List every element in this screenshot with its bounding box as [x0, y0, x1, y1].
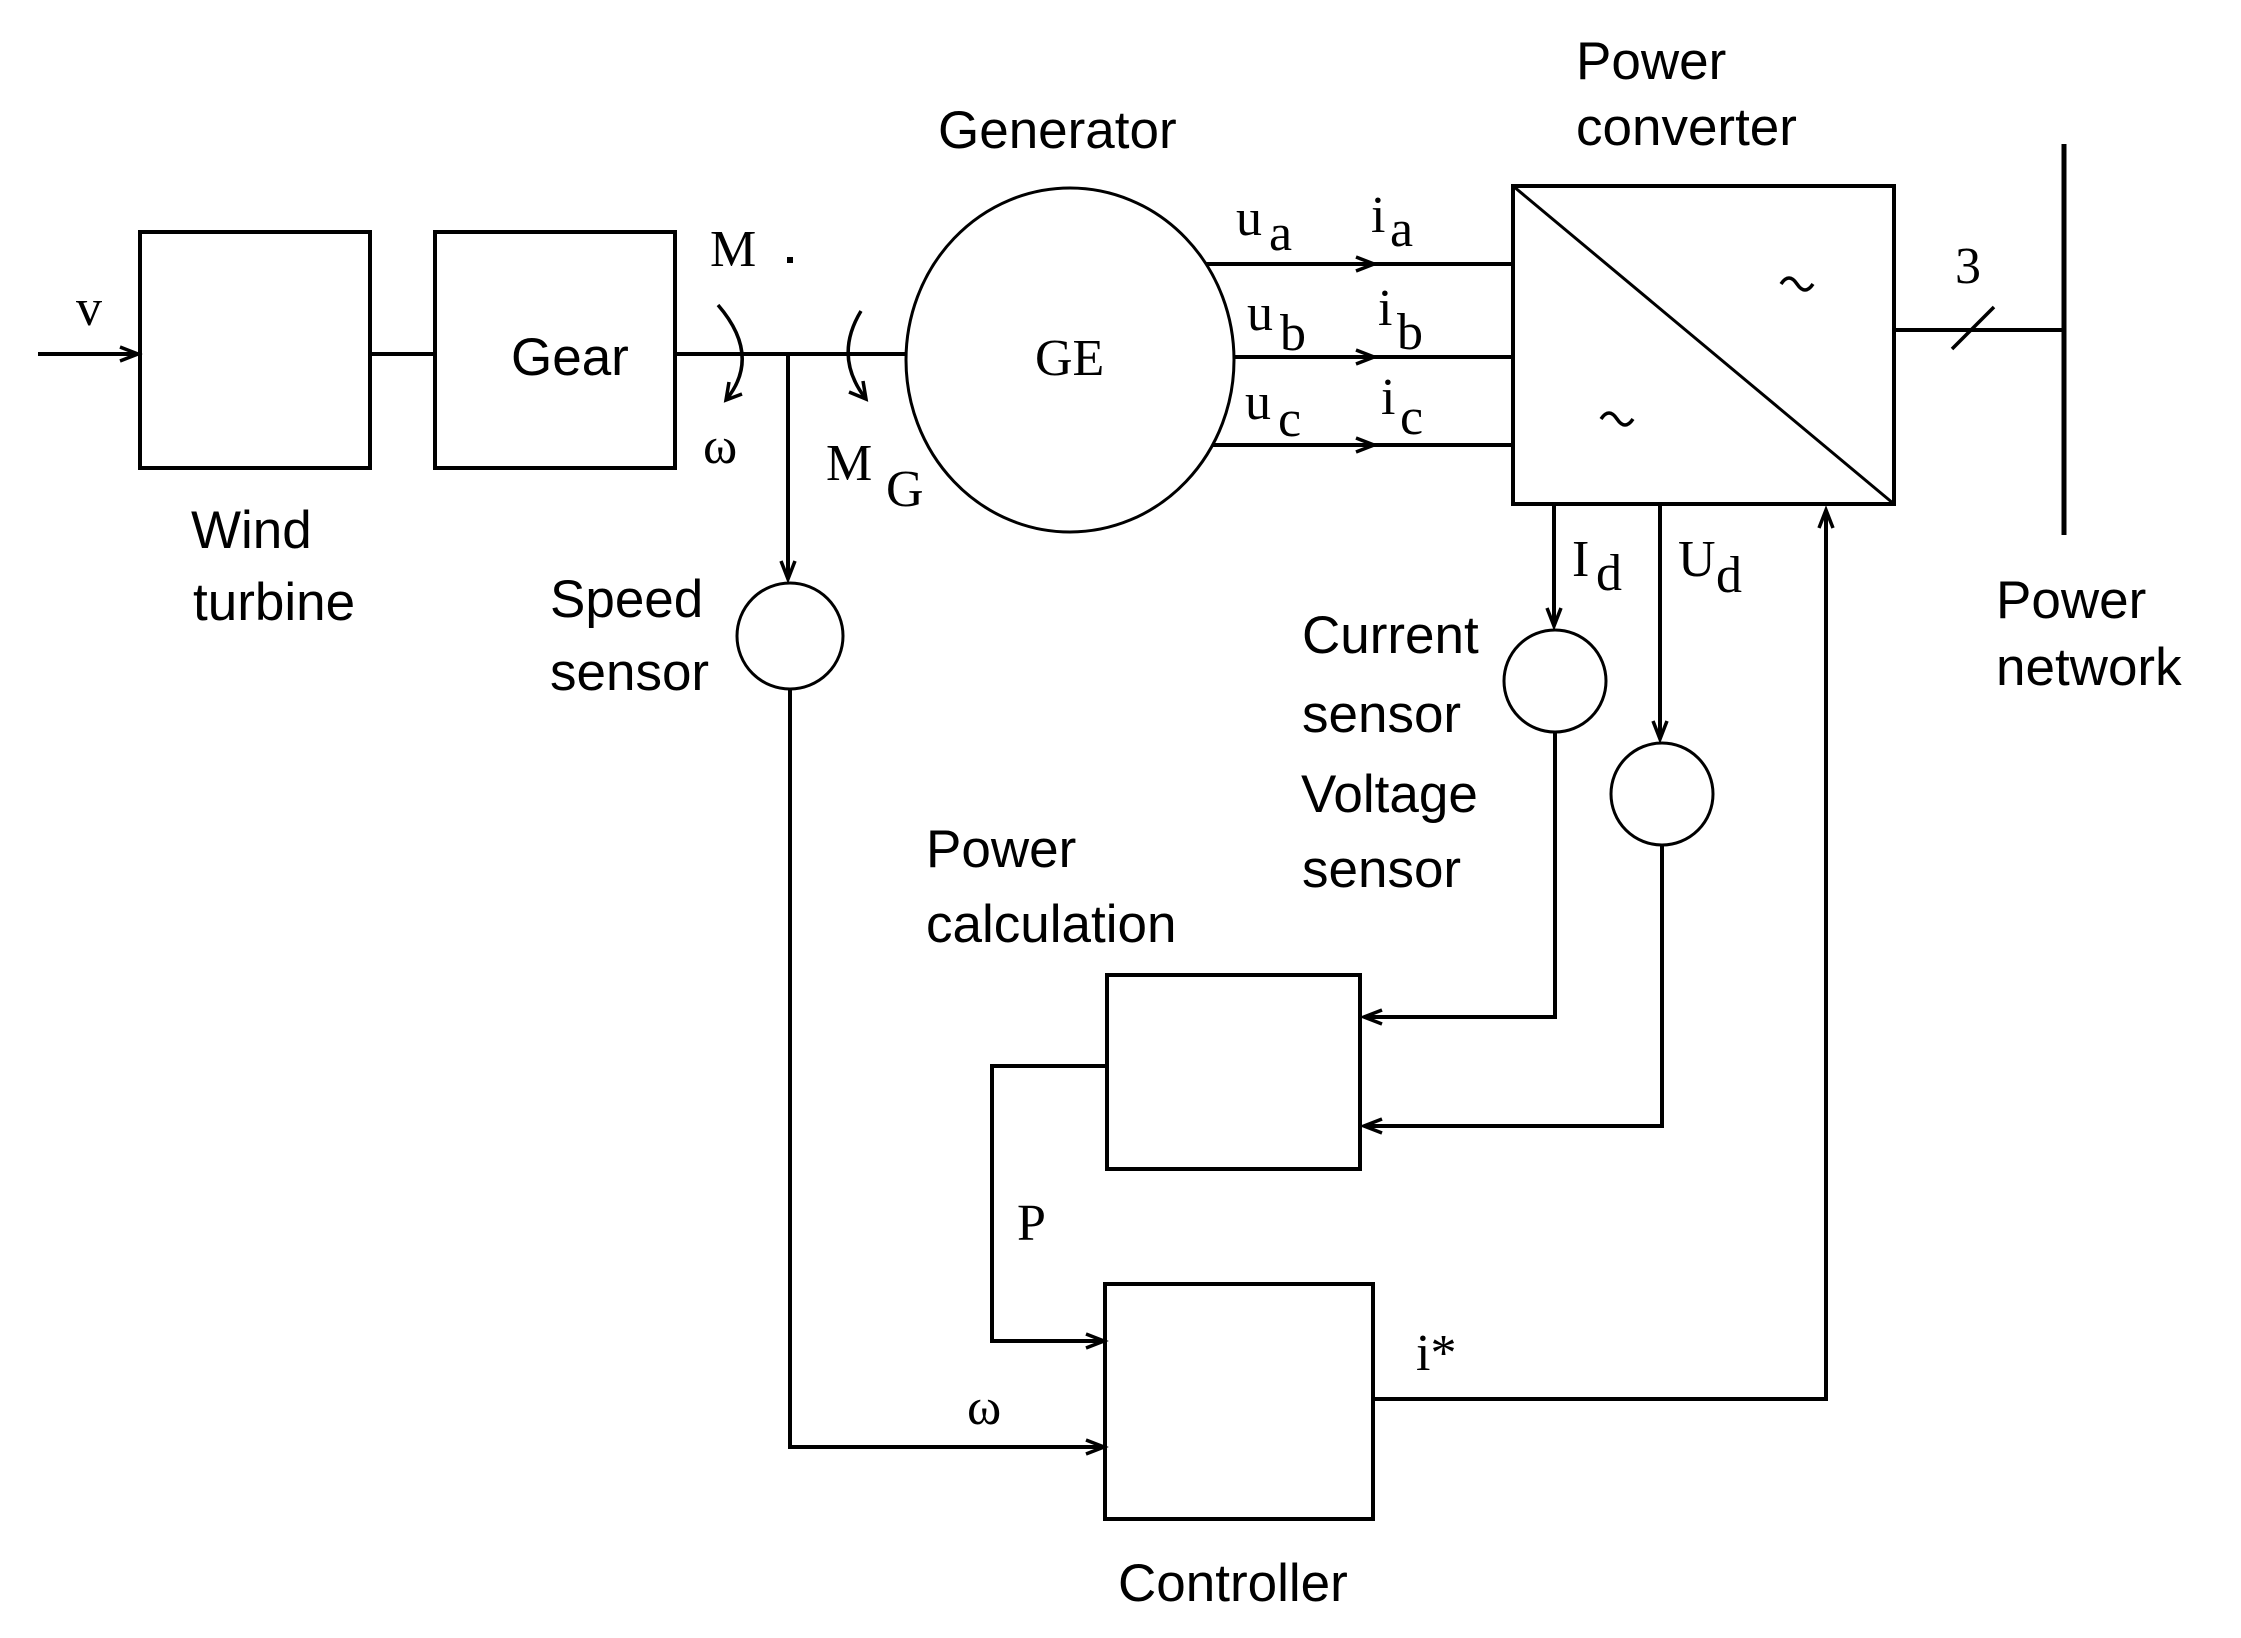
speed sensor [737, 583, 843, 689]
dc current line Id [1547, 504, 1561, 626]
svg-text:network: network [1996, 638, 2182, 697]
svg-text:b: b [1397, 304, 1423, 361]
wire speed sensor to controller omega [790, 689, 1104, 1454]
svg-text:I: I [1572, 531, 1589, 588]
svg-text:GE: GE [1035, 330, 1104, 387]
svg-text:sensor: sensor [1302, 840, 1461, 899]
svg-text:Speed: Speed [550, 570, 703, 629]
svg-text:i: i [1378, 280, 1392, 337]
current sensor [1504, 630, 1606, 732]
svg-text:u: u [1245, 374, 1271, 431]
converter output line to network [1894, 328, 2064, 332]
svg-text:Power: Power [1996, 571, 2146, 630]
power network bus bar [2062, 144, 2067, 535]
phase wire ua [1206, 257, 1513, 271]
wire voltage sensor to power calculation [1364, 845, 1662, 1133]
svg-text:U: U [1678, 531, 1716, 588]
phase wire uc [1212, 438, 1513, 452]
shaft gear to generator [675, 352, 906, 356]
svg-text:c: c [1278, 391, 1301, 448]
svg-text:turbine: turbine [193, 573, 355, 632]
svg-text:u: u [1236, 190, 1262, 247]
converter diagonal [1513, 186, 1894, 504]
converter AC tilde top right [1781, 278, 1813, 290]
wire wind turbine to gear [370, 352, 435, 356]
svg-text:Gear: Gear [511, 328, 629, 387]
svg-text:i: i [1381, 369, 1395, 426]
wire i* controller to converter [1373, 510, 1833, 1399]
svg-text:Generator: Generator [938, 101, 1177, 160]
svg-text:Current: Current [1302, 606, 1479, 665]
svg-text:converter: converter [1576, 98, 1797, 157]
svg-text:Controller: Controller [1118, 1554, 1348, 1613]
power converter block [1513, 186, 1894, 504]
torque rotation arrow MG [848, 311, 866, 399]
svg-text:Power: Power [926, 820, 1076, 879]
wire P power calculation to controller [992, 1066, 1107, 1348]
svg-text:calculation: calculation [926, 895, 1176, 954]
dot after M [787, 257, 793, 263]
svg-text:M: M [826, 435, 872, 492]
dc voltage line Ud [1653, 504, 1667, 739]
svg-text:G: G [886, 461, 924, 518]
svg-text:d: d [1716, 547, 1742, 604]
svg-text:ω: ω [703, 418, 737, 475]
svg-text:a: a [1390, 201, 1413, 258]
generator GE [906, 188, 1234, 532]
wind speed input arrow v [38, 347, 138, 361]
voltage sensor [1611, 743, 1713, 845]
torque rotation arrow M [718, 305, 742, 400]
svg-text:Wind: Wind [191, 501, 312, 560]
three phase slash [1952, 307, 1994, 349]
phase wire ub [1234, 350, 1513, 364]
svg-text:i*: i* [1416, 1325, 1456, 1382]
svg-text:v: v [76, 280, 102, 337]
svg-text:sensor: sensor [1302, 685, 1461, 744]
svg-text:M: M [710, 221, 756, 278]
wind turbine block [140, 232, 370, 468]
wire current sensor to power calculation [1364, 732, 1555, 1024]
svg-text:sensor: sensor [550, 643, 709, 702]
svg-text:3: 3 [1955, 238, 1981, 295]
svg-text:Voltage: Voltage [1301, 765, 1478, 824]
svg-text:d: d [1596, 545, 1622, 602]
svg-text:c: c [1400, 389, 1423, 446]
power calculation block [1107, 975, 1360, 1169]
controller block [1105, 1284, 1373, 1519]
converter AC tilde bottom left [1601, 413, 1633, 425]
branch shaft to speed sensor [781, 354, 795, 579]
svg-text:ω: ω [967, 1379, 1001, 1436]
svg-text:P: P [1017, 1195, 1046, 1252]
svg-text:u: u [1247, 285, 1273, 342]
svg-text:a: a [1269, 205, 1292, 262]
svg-text:Power: Power [1576, 32, 1726, 91]
svg-text:b: b [1280, 305, 1306, 362]
gear block [435, 232, 675, 468]
svg-text:i: i [1371, 187, 1385, 244]
